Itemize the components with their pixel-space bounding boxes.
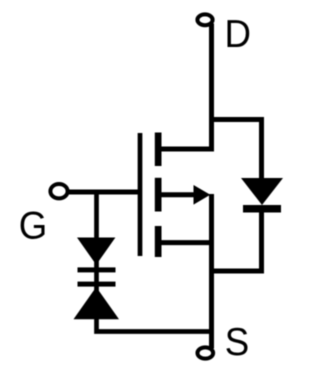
wire drain vertical from D terminal <box>158 24 212 150</box>
MOSFET Q1 source channel bar <box>155 226 162 257</box>
protection diode Z1 anode triangle <box>77 238 115 265</box>
svg-text:D: D <box>224 13 250 56</box>
protection diode Z2 anode triangle <box>74 287 120 319</box>
body diode D2 cathode bar <box>243 205 281 213</box>
svg-text:S: S <box>225 321 249 364</box>
MOSFET Q1 body connection with arrow <box>158 192 195 197</box>
MOSFET Q1 drain channel bar <box>155 133 162 167</box>
protection diode Z1 cathode bar <box>78 267 116 272</box>
wire branch drain to body diode <box>212 120 262 180</box>
MOSFET Q1 source connection <box>158 240 212 245</box>
MOSFET Q1 body arrowhead <box>194 185 211 205</box>
terminal D circle <box>197 14 212 25</box>
wire gate protection branch vertical <box>97 192 215 332</box>
terminal S circle <box>197 347 213 358</box>
wire gate horizontal from G terminal <box>68 190 143 195</box>
MOSFET Q1 gate line <box>138 133 143 256</box>
protection diode Z2 cathode bar <box>78 282 116 287</box>
wire body diode cathode to source node <box>212 211 262 271</box>
svg-text:G: G <box>19 204 48 247</box>
body diode D2 anode triangle <box>241 178 283 205</box>
wire source vertical to S terminal <box>209 194 214 349</box>
MOSFET Q1 body channel bar <box>155 178 162 212</box>
terminal G circle <box>50 184 67 198</box>
